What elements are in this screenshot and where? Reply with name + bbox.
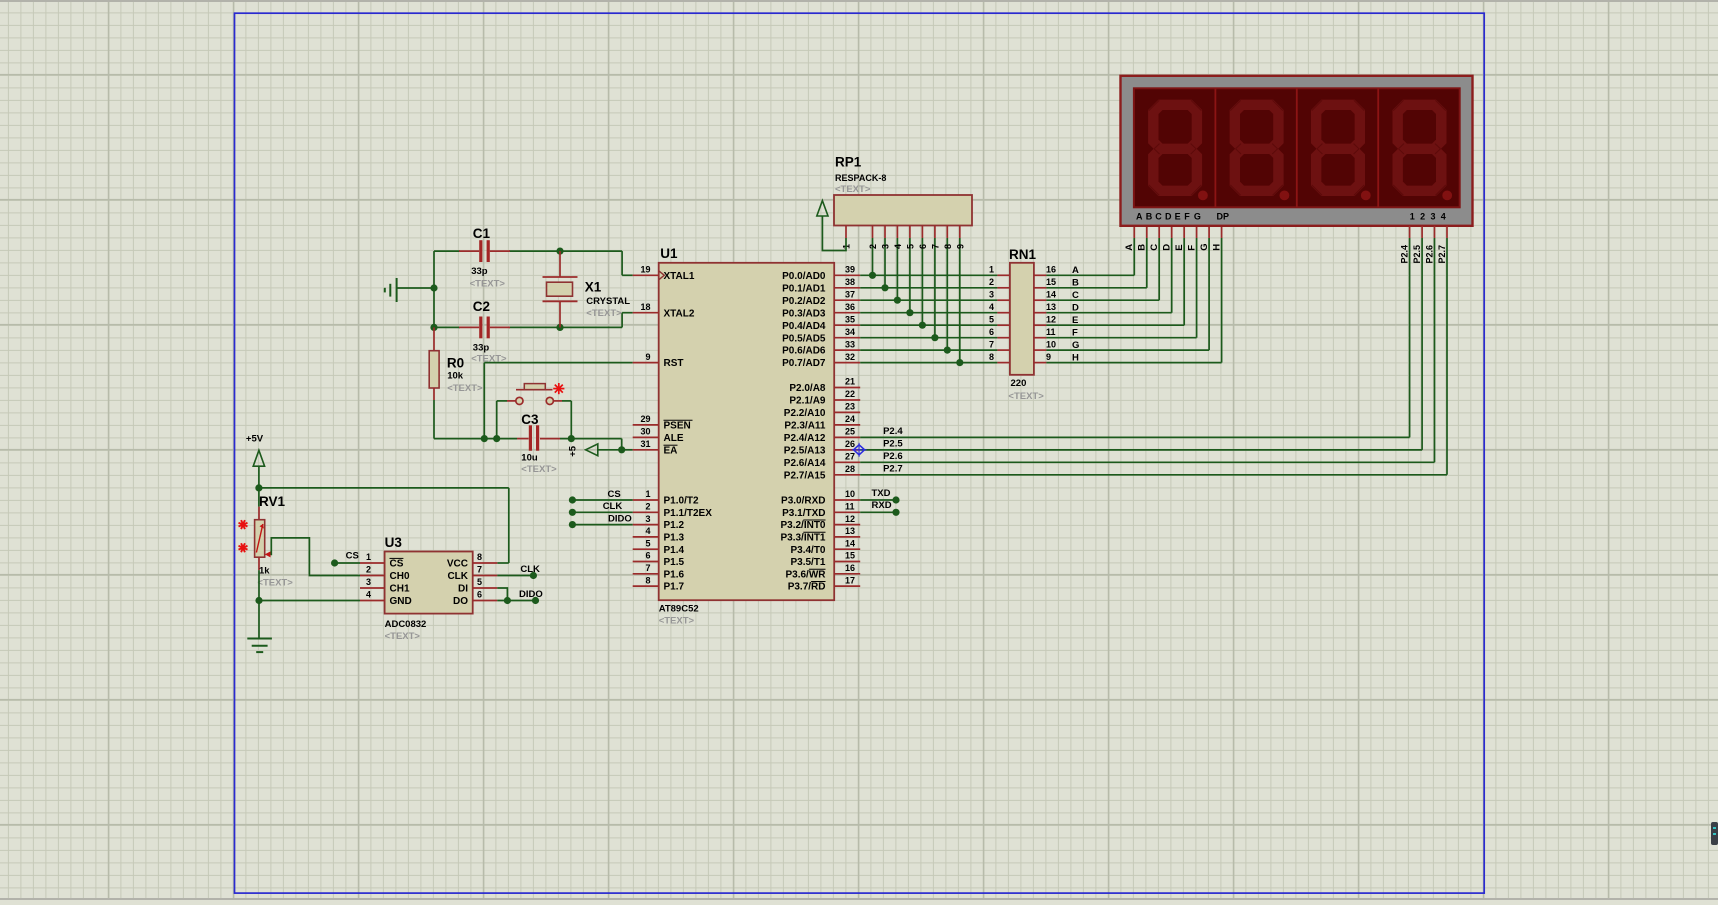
svg-text:P1.3: P1.3 xyxy=(664,533,685,544)
power terminal +5 (EA) xyxy=(586,444,598,456)
junction xyxy=(556,324,563,331)
wire C3 right to EA rail xyxy=(560,438,622,440)
svg-text:34: 34 xyxy=(845,327,855,337)
U1 pin 31 EA xyxy=(633,439,678,456)
wire to XTAL2 rail xyxy=(560,326,622,328)
wire C1 right to X1 node xyxy=(509,250,560,252)
svg-text:9: 9 xyxy=(955,244,965,249)
svg-text:16: 16 xyxy=(1046,265,1056,275)
svg-text:P2.5/A13: P2.5/A13 xyxy=(784,446,826,457)
junction xyxy=(481,435,488,442)
wire CLK to P1.1 xyxy=(572,511,632,513)
svg-text:A: A xyxy=(1136,211,1143,221)
U1 pin 28 P2.7/A15 xyxy=(784,464,860,481)
svg-text:P1.7: P1.7 xyxy=(664,582,685,593)
svg-text:DIDO: DIDO xyxy=(519,589,543,600)
U1 pin 25 P2.4/A12 xyxy=(784,427,860,444)
svg-text:1k: 1k xyxy=(259,566,270,577)
wire net E xyxy=(1046,324,1184,326)
RN1 pin 12 / net E xyxy=(1034,314,1078,326)
svg-text:GND: GND xyxy=(390,596,412,607)
wire C2 left xyxy=(434,326,460,328)
svg-text:CLK: CLK xyxy=(447,571,468,582)
svg-text:U1: U1 xyxy=(660,246,678,261)
4-digit 7-segment display xyxy=(1121,76,1473,226)
wire net C xyxy=(1046,299,1159,301)
svg-text:P0.7/AD7: P0.7/AD7 xyxy=(782,358,826,369)
svg-text:CH1: CH1 xyxy=(390,584,410,595)
svg-text:P3.4/T0: P3.4/T0 xyxy=(790,545,825,556)
RN1 pin 3 stub xyxy=(997,299,1010,301)
svg-text:2: 2 xyxy=(989,277,994,287)
svg-text:2: 2 xyxy=(645,502,650,512)
U1 pin 37 P0.2/AD2 xyxy=(782,289,860,306)
svg-text:26: 26 xyxy=(845,439,855,449)
junction xyxy=(430,324,437,331)
svg-text:4: 4 xyxy=(366,590,371,600)
RN1 pin 2 stub xyxy=(997,287,1010,289)
svg-text:RN1: RN1 xyxy=(1009,247,1036,262)
wire RP1 pin6 down xyxy=(921,238,923,325)
svg-text:6: 6 xyxy=(989,327,994,337)
svg-text:+5V: +5V xyxy=(246,434,264,445)
7-seg digit xyxy=(1311,100,1371,201)
svg-text:<TEXT>: <TEXT> xyxy=(835,184,871,195)
junction xyxy=(881,284,888,291)
wire P0.4 to RN1 xyxy=(860,324,997,326)
svg-text:30: 30 xyxy=(640,427,650,437)
svg-text:VCC: VCC xyxy=(447,559,468,570)
svg-text:7: 7 xyxy=(989,339,994,349)
svg-text:<TEXT>: <TEXT> xyxy=(1008,391,1044,402)
digit divider xyxy=(1214,88,1216,207)
wire P2.7 xyxy=(860,474,1447,476)
svg-text:10u: 10u xyxy=(521,452,538,463)
junction xyxy=(255,484,262,491)
svg-text:33p: 33p xyxy=(473,342,490,353)
RN1 pin 6 stub xyxy=(997,337,1010,339)
digit divider xyxy=(1377,88,1379,207)
svg-text:P3.2/INT0: P3.2/INT0 xyxy=(780,520,825,531)
U1 pin 38 P0.1/AD1 xyxy=(782,277,860,294)
svg-text:3: 3 xyxy=(366,577,371,587)
svg-text:27: 27 xyxy=(845,452,855,462)
svg-text:9: 9 xyxy=(1046,352,1051,362)
svg-text:AT89C52: AT89C52 xyxy=(659,604,699,615)
svg-text:P2.5: P2.5 xyxy=(883,439,903,450)
svg-text:P1.4: P1.4 xyxy=(664,545,685,556)
svg-text:38: 38 xyxy=(845,277,855,287)
wire RST vertical xyxy=(483,363,485,439)
RN1 pin 4 stub xyxy=(997,312,1010,314)
U1 pin 1 P1.0/T2 xyxy=(633,489,699,506)
svg-text:1: 1 xyxy=(989,265,994,275)
svg-text:DI: DI xyxy=(458,584,468,595)
net end TXD xyxy=(892,496,899,503)
svg-text:P2.3/A11: P2.3/A11 xyxy=(784,421,826,432)
svg-text:P2.6: P2.6 xyxy=(1424,245,1434,264)
junction xyxy=(931,334,938,341)
svg-text:P2.7: P2.7 xyxy=(883,463,903,474)
capacitor C2 xyxy=(459,317,510,339)
display pin D stub xyxy=(1171,226,1173,238)
wire net G xyxy=(1046,349,1209,351)
U1 pin 9 RST xyxy=(633,352,684,369)
wire RP1 pin3 down xyxy=(884,238,886,288)
svg-text:9: 9 xyxy=(645,352,650,362)
display pin 3 stub xyxy=(1434,226,1436,238)
wire btn right xyxy=(562,400,571,402)
svg-text:CLK: CLK xyxy=(603,501,623,512)
svg-text:P1.0/T2: P1.0/T2 xyxy=(664,496,699,507)
svg-text:A: A xyxy=(1124,244,1135,251)
wire P0.2 to RN1 xyxy=(860,299,997,301)
IC U1 AT89C52 xyxy=(659,263,835,600)
wire to U3 GND xyxy=(259,600,360,602)
svg-text:31: 31 xyxy=(640,439,650,449)
svg-text:P0.6/AD6: P0.6/AD6 xyxy=(782,346,826,357)
svg-text:15: 15 xyxy=(845,551,855,561)
svg-text:10: 10 xyxy=(1046,339,1056,349)
svg-text:U3: U3 xyxy=(385,535,403,550)
svg-text:CS: CS xyxy=(346,551,359,562)
svg-text:R0: R0 xyxy=(447,355,464,370)
svg-text:P0.2/AD2: P0.2/AD2 xyxy=(782,296,826,307)
svg-text:P2.4: P2.4 xyxy=(1399,245,1409,264)
RN1 pin 1 stub xyxy=(997,274,1010,276)
wire to ground xyxy=(258,601,260,639)
svg-text:<TEXT>: <TEXT> xyxy=(385,631,421,642)
svg-text:P0.3/AD3: P0.3/AD3 xyxy=(782,308,826,319)
svg-text:RV1: RV1 xyxy=(259,494,286,509)
wire net A up xyxy=(1133,238,1135,275)
IC U3 ADC0832 xyxy=(385,552,473,614)
wire left rail xyxy=(433,251,435,327)
svg-text:4: 4 xyxy=(1441,211,1446,221)
svg-text:7: 7 xyxy=(930,244,940,249)
display pin E stub xyxy=(1183,226,1185,238)
svg-text:13: 13 xyxy=(1046,302,1056,312)
U1 pin 11 P3.1/TXD xyxy=(782,502,860,519)
net end CS xyxy=(331,559,338,566)
svg-text:C1: C1 xyxy=(473,226,491,241)
svg-text:<TEXT>: <TEXT> xyxy=(521,464,557,475)
svg-text:1: 1 xyxy=(366,552,371,562)
net end DIDO xyxy=(569,521,576,528)
U1 pin 3 P1.2 xyxy=(633,514,685,531)
svg-text:CS: CS xyxy=(608,489,621,500)
U1 pin 18 XTAL2 xyxy=(633,302,695,319)
svg-text:P2.6: P2.6 xyxy=(883,451,903,462)
wire RP1 pin2 down xyxy=(872,238,874,275)
svg-text:37: 37 xyxy=(845,289,855,299)
svg-text:2: 2 xyxy=(366,565,371,575)
junction xyxy=(556,248,563,255)
junction xyxy=(493,435,500,442)
svg-text:33p: 33p xyxy=(471,266,488,277)
wire net A xyxy=(1046,274,1134,276)
svg-text:P2.0/A8: P2.0/A8 xyxy=(789,383,826,394)
svg-text:P1.6: P1.6 xyxy=(664,569,685,580)
svg-text:P2.1/A9: P2.1/A9 xyxy=(789,396,826,407)
crystal X1 xyxy=(543,251,578,327)
7-seg digit xyxy=(1148,100,1208,201)
svg-text:10: 10 xyxy=(845,489,855,499)
wire DIDO to P1.2 xyxy=(572,524,632,526)
U1 pin 12 P3.2/INT0 xyxy=(780,514,860,531)
svg-text:23: 23 xyxy=(845,402,855,412)
svg-text:25: 25 xyxy=(845,427,855,437)
junction xyxy=(894,297,901,304)
RN1 pin 16 / net A xyxy=(1034,265,1079,277)
svg-text:ALE: ALE xyxy=(664,433,684,444)
wire P0.1 to RN1 xyxy=(860,287,997,289)
svg-text:<TEXT>: <TEXT> xyxy=(447,383,483,394)
svg-text:14: 14 xyxy=(845,538,855,548)
svg-text:D: D xyxy=(1162,244,1173,251)
svg-text:8: 8 xyxy=(477,552,482,562)
wire RV1 wiper to CH0 xyxy=(271,538,361,576)
svg-text:P2.4: P2.4 xyxy=(883,426,903,437)
U3 pin 1 CS xyxy=(360,552,404,569)
svg-text:4: 4 xyxy=(989,302,994,312)
junction xyxy=(568,435,575,442)
U1 pin 6 P1.5 xyxy=(633,551,685,568)
svg-text:16: 16 xyxy=(845,563,855,573)
U3 pin 8 VCC xyxy=(447,552,497,569)
net end CLK xyxy=(530,572,537,579)
svg-text:P2.4/A12: P2.4/A12 xyxy=(784,433,826,444)
wire P2.6 up xyxy=(1434,238,1436,462)
svg-text:5: 5 xyxy=(645,538,650,548)
display pin 4 stub xyxy=(1446,226,1448,238)
wire P2.5 up xyxy=(1421,238,1423,450)
svg-text:P2.7: P2.7 xyxy=(1437,245,1447,264)
svg-text:32: 32 xyxy=(845,352,855,362)
wire P0.5 to RN1 xyxy=(860,337,997,339)
svg-text:PSEN: PSEN xyxy=(664,421,691,432)
svg-text:G: G xyxy=(1199,243,1210,250)
wire into VCC stub xyxy=(497,562,509,564)
svg-text:3: 3 xyxy=(1430,211,1435,221)
svg-text:39: 39 xyxy=(845,265,855,275)
wire net H up xyxy=(1221,238,1223,363)
capacitor C1 xyxy=(459,240,510,262)
U3 pin 7 CLK xyxy=(447,565,497,582)
wire net E up xyxy=(1183,238,1185,325)
wire RV1 bottom xyxy=(258,570,260,600)
svg-text:12: 12 xyxy=(1046,314,1056,324)
resistor pack RP1 xyxy=(834,195,972,238)
RN1 pin 13 / net D xyxy=(1034,302,1079,314)
display pin 2 stub xyxy=(1421,226,1423,238)
svg-text:P1.1/T2EX: P1.1/T2EX xyxy=(664,508,713,519)
wire C2 right xyxy=(509,326,560,328)
svg-text:P2.5: P2.5 xyxy=(1412,245,1422,264)
svg-text:36: 36 xyxy=(845,302,855,312)
svg-text:<TEXT>: <TEXT> xyxy=(659,616,695,627)
RN1 pin 5 stub xyxy=(997,324,1010,326)
wire RP1 pin7 down xyxy=(934,238,936,338)
power terminal (RP1 pin1) xyxy=(817,201,846,251)
wire net F up xyxy=(1196,238,1198,338)
U3 pin 4 GND xyxy=(360,590,412,607)
svg-text:CRYSTAL: CRYSTAL xyxy=(586,296,630,307)
RP1 pin numbers xyxy=(842,244,966,249)
wire CS to P1.0 xyxy=(572,499,632,501)
svg-text:E: E xyxy=(1174,244,1185,250)
wire to XTAL1 rail xyxy=(560,250,622,252)
U1 pin 23 P2.2/A10 xyxy=(784,402,860,419)
wire RP1 pin5 down xyxy=(909,238,911,313)
ground (crystal) xyxy=(385,278,397,302)
U1 pin 36 P0.3/AD3 xyxy=(782,302,860,319)
svg-text:ADC0832: ADC0832 xyxy=(385,619,427,630)
svg-text:D: D xyxy=(1165,211,1172,221)
svg-text:5: 5 xyxy=(989,314,994,324)
RN1 pin 8 stub xyxy=(997,362,1010,364)
7-seg digit xyxy=(1230,100,1290,201)
svg-text:G: G xyxy=(1194,211,1201,221)
svg-text:P0.0/AD0: P0.0/AD0 xyxy=(782,271,826,282)
svg-text:P3.1/TXD: P3.1/TXD xyxy=(782,508,825,519)
resistor R0 xyxy=(429,327,439,400)
wire RST xyxy=(484,362,632,364)
svg-text:TXD: TXD xyxy=(872,488,891,499)
wire down to VCC xyxy=(508,488,510,563)
RN1 pin 14 / net C xyxy=(1034,289,1079,301)
svg-text:11: 11 xyxy=(1046,327,1056,337)
wire XTAL1 xyxy=(622,274,633,276)
svg-text:8: 8 xyxy=(989,352,994,362)
svg-text:14: 14 xyxy=(1046,289,1056,299)
wire net H xyxy=(1046,362,1221,364)
U1 pin 4 P1.3 xyxy=(633,526,685,543)
svg-text:C: C xyxy=(1149,244,1160,251)
wire RP1 pin4 down xyxy=(896,238,898,300)
U1 pin 29 PSEN xyxy=(633,414,693,431)
wire DO xyxy=(497,600,535,602)
svg-text:P3.0/RXD: P3.0/RXD xyxy=(781,496,825,507)
U1 pin 26 P2.5/A13 xyxy=(784,439,860,456)
junction xyxy=(956,359,963,366)
svg-text:C3: C3 xyxy=(521,412,539,427)
wire P2.6 xyxy=(860,461,1434,463)
button actuator star xyxy=(553,383,564,394)
wire net G up xyxy=(1208,238,1210,350)
svg-text:4: 4 xyxy=(893,244,903,249)
U1 pin 19 XTAL1 xyxy=(633,265,695,282)
wire +5V to U3 VCC xyxy=(259,487,509,489)
U3 pin 3 CH1 xyxy=(360,577,410,594)
U3 pin 2 CH0 xyxy=(360,565,410,582)
display pin F stub xyxy=(1196,226,1198,238)
svg-text:19: 19 xyxy=(640,265,650,275)
svg-text:17: 17 xyxy=(845,575,855,585)
sheet border xyxy=(235,13,1485,893)
wire P0.7 to RN1 xyxy=(860,362,997,364)
svg-text:RESPACK-8: RESPACK-8 xyxy=(835,173,886,183)
digit divider xyxy=(1296,88,1298,207)
svg-text:DO: DO xyxy=(453,596,468,607)
svg-text:C: C xyxy=(1155,211,1162,221)
scrollbar fragment bottom-right xyxy=(1711,822,1718,845)
svg-text:5: 5 xyxy=(477,577,482,587)
svg-text:1: 1 xyxy=(1410,211,1415,221)
decimal point xyxy=(1361,191,1371,201)
junction xyxy=(618,446,625,453)
U1 pin 35 P0.4/AD4 xyxy=(782,314,860,331)
svg-text:22: 22 xyxy=(845,389,855,399)
svg-text:B: B xyxy=(1146,211,1153,221)
junction xyxy=(919,322,926,329)
push button xyxy=(507,384,562,405)
wire to EA pin xyxy=(622,449,633,451)
selection cursor xyxy=(852,443,867,457)
wire btn right down xyxy=(570,401,572,439)
display pin C stub xyxy=(1158,226,1160,238)
wire P2.7 up xyxy=(1446,238,1448,475)
svg-text:XTAL1: XTAL1 xyxy=(664,271,695,282)
svg-text:P0.5/AD5: P0.5/AD5 xyxy=(782,333,826,344)
svg-text:15: 15 xyxy=(1046,277,1056,287)
svg-text:21: 21 xyxy=(845,377,855,387)
svg-text:P2.6/A14: P2.6/A14 xyxy=(784,458,826,469)
U3 pin 5 DI xyxy=(458,577,497,594)
svg-text:P2.7/A15: P2.7/A15 xyxy=(784,470,826,481)
wire P0.6 to RN1 xyxy=(860,349,997,351)
net CS at U3 xyxy=(335,562,360,564)
svg-text:P2.2/A10: P2.2/A10 xyxy=(784,408,826,419)
svg-text:<TEXT>: <TEXT> xyxy=(257,577,293,588)
net end CS xyxy=(569,496,576,503)
U1 pin 13 P3.3/INT1 xyxy=(780,526,860,543)
RN1 pin 11 / net F xyxy=(1034,327,1078,339)
svg-text:CS: CS xyxy=(390,559,404,570)
wire DI to DO (DIDO) xyxy=(497,588,507,601)
RN1 pin 15 / net B xyxy=(1034,277,1079,289)
wire CLK xyxy=(497,575,533,577)
svg-text:35: 35 xyxy=(845,314,855,324)
junction xyxy=(906,309,913,316)
svg-text:7: 7 xyxy=(645,563,650,573)
svg-text:2: 2 xyxy=(868,244,878,249)
wire P0.3 to RN1 xyxy=(860,312,997,314)
svg-text:2: 2 xyxy=(1420,211,1425,221)
U1 pin 10 P3.0/RXD xyxy=(781,489,860,506)
pot actuator star xyxy=(239,520,248,529)
svg-text:1: 1 xyxy=(645,489,650,499)
svg-text:P3.3/INT1: P3.3/INT1 xyxy=(780,533,825,544)
display pin 1 stub xyxy=(1409,226,1411,238)
wire P2.4 up xyxy=(1409,238,1411,437)
svg-text:29: 29 xyxy=(640,414,650,424)
svg-text:4: 4 xyxy=(645,526,650,536)
svg-text:X1: X1 xyxy=(585,280,602,295)
resistor network RN1 xyxy=(1010,263,1034,375)
XTAL1 clock mark xyxy=(659,271,665,280)
wire R0 bottom xyxy=(433,400,435,439)
junction xyxy=(504,597,511,604)
wire P2.5 xyxy=(860,449,1422,451)
display pin H stub xyxy=(1221,226,1223,238)
net end CLK xyxy=(569,509,576,516)
svg-text:6: 6 xyxy=(477,590,482,600)
wire TXD xyxy=(860,499,896,501)
svg-text:8: 8 xyxy=(943,244,953,249)
wire C1 left xyxy=(434,250,460,252)
U1 pin 30 ALE xyxy=(633,427,684,444)
